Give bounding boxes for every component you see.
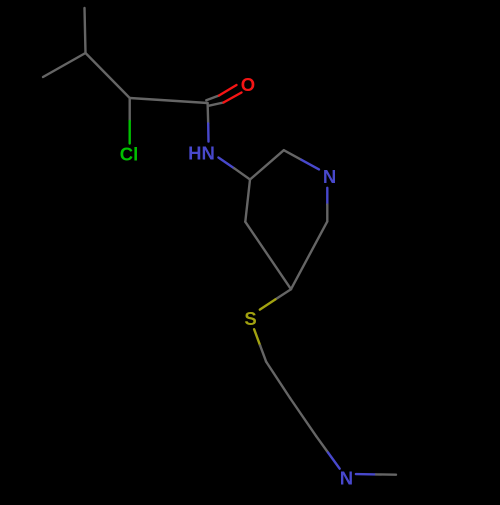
wire Cn-Nbot blue half [328,453,340,469]
svg-text:O: O [241,74,255,95]
wire S-C5t olive half [254,329,260,345]
wire C5t-C4t [266,362,290,398]
wire C4t-Cn [290,398,316,436]
wire Cacyl-Nam blue half [207,123,210,141]
wire Nbot-CH3n blue half [356,473,376,476]
svg-text:N: N [340,468,353,489]
wire CH3b-V1 [43,53,86,77]
wire C1-C2 [250,150,284,179]
wire C3-C2t [245,222,291,289]
wire C1-C3 [245,180,250,222]
wire CCl-Cacyl [130,98,208,103]
wire S-C5t gray half [260,345,266,361]
wire Cacyl-Nam gray half [206,103,209,123]
wire Nbot-CH3n gray half [376,473,396,476]
wire CH3a-V1 [85,8,86,53]
wire C=O line1 red half [219,85,237,96]
wire C2-Npyr gray half [284,150,302,160]
svg-text:S: S [244,308,256,329]
wire C5-C2t [291,221,327,289]
svg-text:HN: HN [188,143,215,164]
wire C2-Npyr blue half [301,160,319,170]
wire C2t-S gray half [275,289,291,299]
wire Npyr-C5 blue half [326,188,328,205]
wire Cn-Nbot gray half [316,436,328,452]
wire C=O line2 red half [224,93,242,103]
wire C2t-S olive half [260,299,276,309]
wire Nam-C1 blue half [218,158,234,169]
svg-text:Cl: Cl [120,144,139,165]
wire C=O line1 gray half [206,96,219,101]
wire Npyr-C5 gray half [326,205,328,222]
svg-text:N: N [323,166,336,187]
wire V1-CCl [86,53,130,98]
wire CCl-Cl green half [128,121,130,144]
wire Nam-C1 gray half [234,168,250,179]
wire CCl-Cl gray half [128,98,130,121]
wire C=O line2 gray half [209,103,224,106]
